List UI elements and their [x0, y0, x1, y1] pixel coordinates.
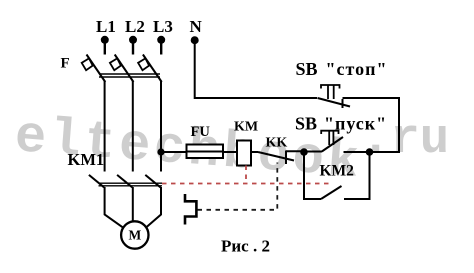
- label N: [190, 17, 203, 36]
- button SB start contact: [322, 137, 343, 152]
- breaker F pole 1 lever: [82, 55, 106, 83]
- mechanical link KM to KM1 and KM2 (red dashed horizontal): [162, 183, 333, 185]
- label L1: [96, 17, 116, 36]
- terminal L3: [157, 36, 165, 55]
- label KK: [266, 136, 288, 151]
- label SB stop: [296, 59, 388, 79]
- button SB stop contact: [318, 98, 351, 108]
- wire phase C down: [160, 81, 162, 172]
- svg-text:L1: L1: [96, 17, 116, 36]
- node B junction: [366, 148, 374, 156]
- wire phase A down: [104, 81, 106, 172]
- label KM: [234, 120, 258, 135]
- thermal element KK heater: [185, 194, 196, 225]
- contactor KM1 pole 1 contact: [89, 175, 104, 187]
- label F: [61, 56, 70, 72]
- contactor KM1 linkage bar: [99, 183, 163, 186]
- mechanical link KK (black dashed): [198, 163, 278, 210]
- wire motor lead A: [105, 187, 123, 227]
- contact KM2 lever: [321, 186, 342, 199]
- svg-text:M: M: [129, 228, 142, 243]
- coil KM: [237, 141, 251, 166]
- caption Ris.2: [221, 237, 270, 256]
- button SB stop actuator: [321, 85, 340, 99]
- wire phase B down: [132, 81, 134, 172]
- label L2: [125, 17, 145, 36]
- svg-text:L2: L2: [125, 17, 145, 36]
- wire motor lead C: [146, 187, 161, 227]
- node A junction: [300, 148, 308, 156]
- contactor KM1 pole 2 contact: [117, 175, 132, 187]
- svg-text:F: F: [61, 56, 70, 72]
- svg-text:KM2: KM2: [320, 163, 355, 180]
- label KM2: [320, 163, 355, 180]
- label KM1: [68, 150, 105, 169]
- wire fuse to coil: [223, 151, 237, 153]
- label SB start: [295, 114, 387, 134]
- motor M: [121, 221, 148, 248]
- svg-text:L3: L3: [153, 17, 173, 36]
- wire N down and right: [195, 40, 317, 98]
- breaker F pole 3 lever: [138, 55, 162, 83]
- wire node A to start: [304, 151, 322, 153]
- svg-text:N: N: [190, 17, 203, 36]
- svg-text:SB: SB: [295, 114, 317, 134]
- contactor KM1 pole 3 contact: [145, 175, 160, 187]
- terminal L2: [129, 36, 137, 55]
- terminal N: [191, 36, 199, 44]
- svg-text:KM1: KM1: [68, 150, 105, 169]
- svg-text:SB: SB: [296, 59, 318, 79]
- wire tap to fuse: [161, 151, 187, 153]
- breaker F pole 2 lever: [110, 55, 134, 83]
- label FU: [191, 124, 211, 140]
- thermal contact KK: [251, 151, 304, 165]
- svg-text:KM: KM: [234, 120, 258, 135]
- contact KM2 left leg: [304, 152, 321, 199]
- wire stop to right corner: [343, 98, 400, 152]
- contact KM2 right leg: [344, 152, 370, 199]
- svg-text:KK: KK: [266, 136, 288, 151]
- terminal L1: [101, 36, 109, 55]
- svg-text:Рис . 2: Рис . 2: [221, 237, 270, 256]
- wire motor lead B: [132, 187, 134, 222]
- label L3: [153, 17, 173, 36]
- junction tap on phase C: [157, 148, 164, 155]
- wire start to node B: [344, 151, 370, 153]
- fuse FU: [187, 145, 224, 159]
- mechanical link KM coil (red dashed vertical): [245, 166, 247, 184]
- button SB start actuator: [321, 131, 338, 145]
- svg-text:"стоп": "стоп": [326, 59, 388, 79]
- breaker F linkage bar: [99, 74, 160, 77]
- svg-text:FU: FU: [191, 124, 211, 140]
